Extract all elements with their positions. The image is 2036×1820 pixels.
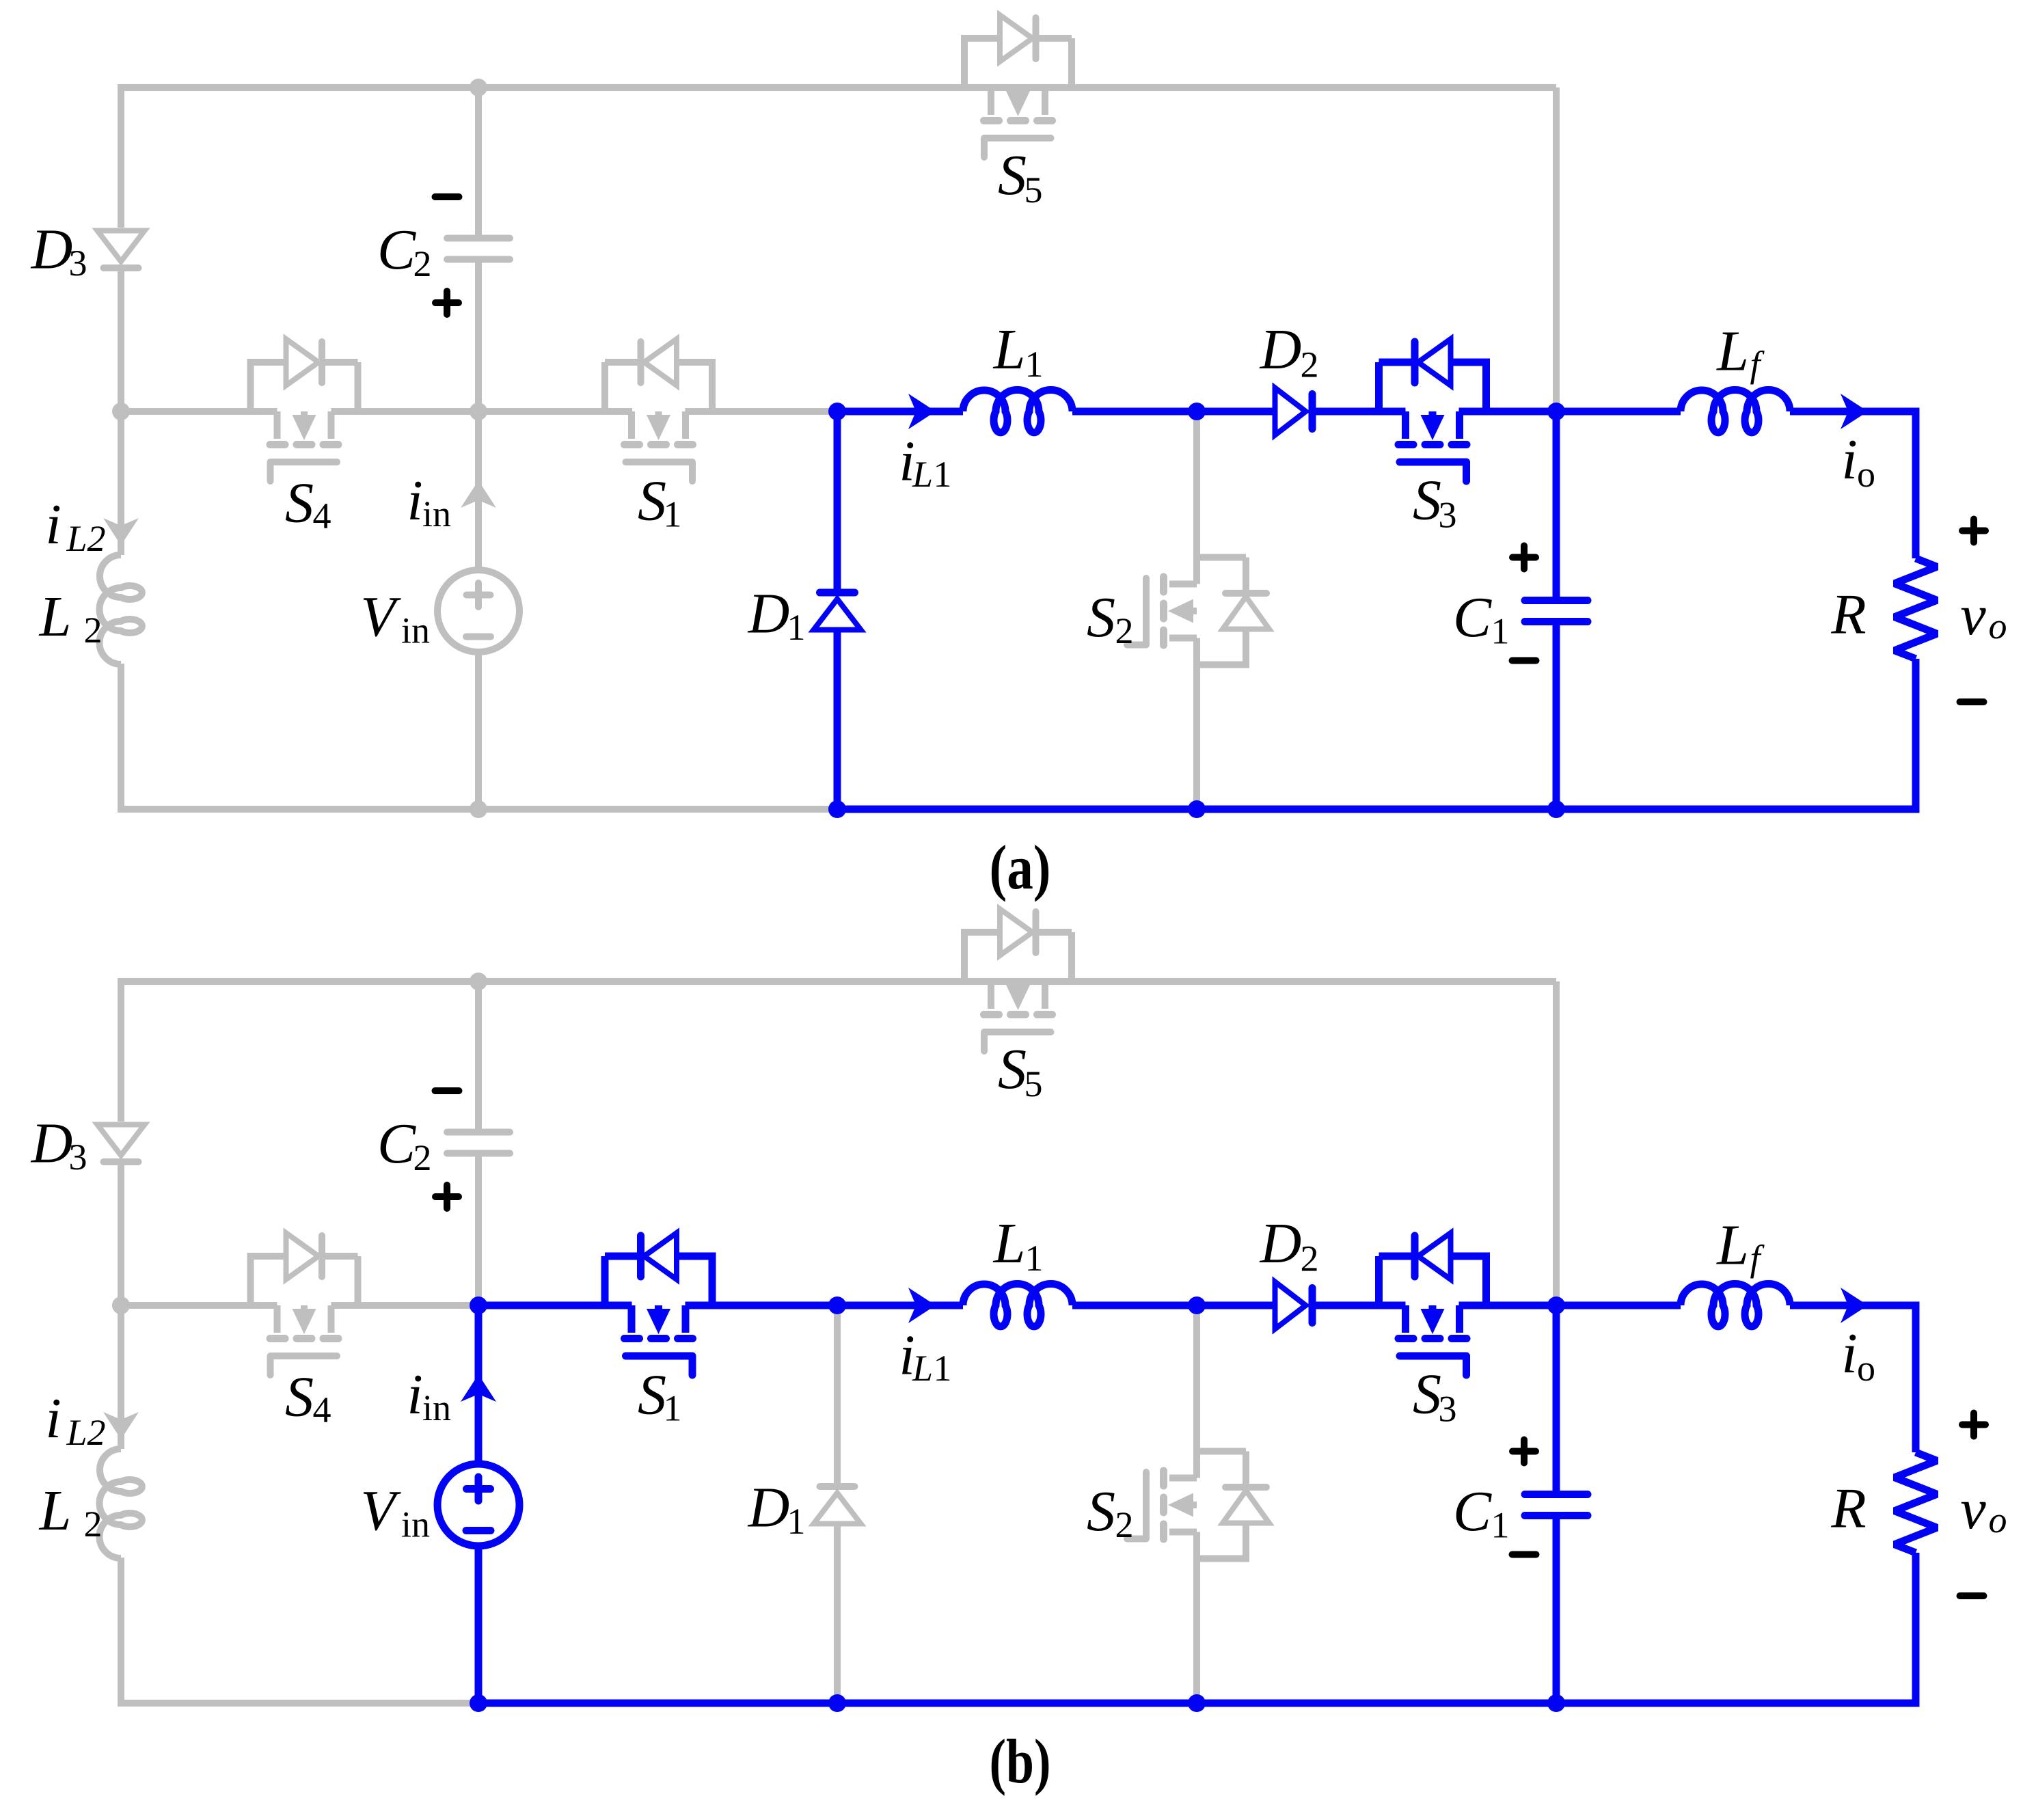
- svg-text:o: o: [1989, 606, 2007, 647]
- svg-text:D: D: [1260, 1212, 1302, 1275]
- svg-text:S: S: [998, 144, 1027, 207]
- svg-text:L: L: [39, 585, 72, 649]
- node D1 bottom: [828, 1694, 846, 1712]
- transistor S4: [251, 1233, 358, 1375]
- svg-text:S: S: [998, 1037, 1027, 1101]
- svg-text:L: L: [1716, 320, 1749, 383]
- arrow i_L1: [908, 1288, 936, 1323]
- wire mid rail gray (S1 to D1 node): [686, 408, 838, 415]
- node C1 bottom: [1547, 1694, 1565, 1712]
- svg-text:C: C: [1453, 1480, 1492, 1543]
- svg-text:2: 2: [1115, 1504, 1134, 1545]
- transistor S3: [1379, 339, 1487, 481]
- resistor R: [1895, 1452, 1937, 1553]
- svg-text:4: 4: [313, 495, 331, 537]
- svg-text:S: S: [1087, 1480, 1115, 1543]
- svg-text:3: 3: [69, 243, 87, 284]
- capacitor C1: [1525, 1495, 1588, 1516]
- svg-text:S: S: [638, 1363, 666, 1427]
- label C2 plus: [435, 291, 459, 314]
- svg-text:2: 2: [1301, 344, 1319, 385]
- inductor Lf: [1681, 1284, 1790, 1327]
- wire D2 to S3: [1312, 408, 1406, 416]
- svg-text:in: in: [422, 493, 451, 534]
- svg-text:L: L: [912, 454, 933, 495]
- arrow i_L1: [908, 394, 936, 429]
- voltage source Vin: [437, 1464, 519, 1546]
- wire top rail + left rail upper: [121, 87, 1556, 228]
- svg-text:S: S: [1087, 586, 1115, 649]
- node D1 top: [828, 403, 846, 420]
- node top C2 junction: [470, 973, 487, 990]
- arrow i_L2: [103, 518, 139, 545]
- svg-text:3: 3: [69, 1137, 87, 1178]
- label out minus: [1960, 1592, 1984, 1599]
- svg-text:2: 2: [84, 610, 103, 651]
- svg-text:v: v: [1960, 584, 1986, 647]
- arrow i_L2: [103, 1412, 139, 1439]
- node C1 top: [1547, 1296, 1565, 1314]
- svg-text:1: 1: [934, 1348, 952, 1389]
- wire C2 branch: [475, 981, 482, 1305]
- wire mid rail gray left: [121, 408, 632, 415]
- svg-text:i: i: [45, 493, 61, 556]
- svg-text:1: 1: [1491, 1505, 1510, 1546]
- svg-text:i: i: [407, 1363, 422, 1426]
- label C1 minus: [1512, 657, 1536, 664]
- label C2 minus: [435, 1087, 459, 1094]
- wire D1 branch blue: [834, 411, 841, 809]
- svg-text:D: D: [748, 582, 790, 646]
- wire Vin branch gray: [475, 411, 482, 809]
- svg-text:L: L: [1716, 1214, 1749, 1277]
- svg-text:i: i: [1841, 428, 1857, 491]
- capacitor C2: [447, 239, 510, 260]
- transistor S4: [251, 339, 358, 481]
- svg-text:S: S: [638, 470, 666, 533]
- svg-text:L: L: [39, 1479, 72, 1543]
- transistor S5: [964, 909, 1072, 1051]
- node Vin bottom junction: [470, 800, 487, 818]
- wire left rail (below D3): [118, 271, 124, 555]
- svg-text:S: S: [1413, 1363, 1441, 1426]
- inductor L1: [963, 1284, 1072, 1327]
- label C1 plus: [1512, 546, 1536, 569]
- svg-text:3: 3: [1439, 495, 1457, 536]
- svg-text:V: V: [360, 585, 401, 649]
- transistor S3: [1379, 1233, 1487, 1375]
- svg-text:o: o: [1857, 454, 1875, 495]
- arrow i_in: [461, 1374, 496, 1402]
- svg-text:C: C: [377, 1112, 416, 1176]
- label C1 plus: [1512, 1440, 1536, 1463]
- svg-text:L: L: [993, 1212, 1026, 1275]
- svg-text:L2: L2: [66, 1412, 105, 1453]
- node Vin bottom junction: [470, 1694, 487, 1712]
- voltage source Vin: [437, 570, 519, 652]
- svg-text:S: S: [1413, 469, 1441, 532]
- diode D1: [814, 593, 861, 630]
- svg-text:R: R: [1830, 1477, 1866, 1540]
- svg-text:1: 1: [787, 607, 806, 648]
- svg-text:i: i: [45, 1387, 61, 1450]
- label C2 minus: [435, 193, 459, 200]
- wire mid rail blue (node to L1): [837, 408, 963, 416]
- node D1 bottom: [828, 800, 846, 818]
- wire mid rail blue (S1 to L1): [686, 1302, 964, 1309]
- svg-text:(b): (b): [990, 1726, 1051, 1796]
- svg-text:v: v: [1960, 1478, 1986, 1541]
- svg-text:L: L: [912, 1348, 933, 1389]
- inductor L2: [100, 1449, 142, 1558]
- svg-text:f: f: [1750, 344, 1765, 385]
- inductor L1: [963, 390, 1072, 433]
- svg-text:S: S: [285, 1366, 314, 1429]
- svg-text:1: 1: [1025, 344, 1044, 385]
- svg-text:i: i: [407, 469, 422, 532]
- label out plus: [1962, 519, 1985, 543]
- node top C2 junction: [470, 79, 487, 96]
- wire S3 to Lf: [1459, 408, 1681, 416]
- node C2 mid junction: [470, 1296, 487, 1314]
- wire C1 branch: [1553, 411, 1560, 809]
- svg-text:(a): (a): [990, 832, 1051, 902]
- svg-text:o: o: [1989, 1499, 2007, 1540]
- node C2 mid junction: [470, 403, 487, 420]
- svg-text:L: L: [993, 318, 1026, 381]
- wire top rail + left rail upper: [121, 981, 1556, 1122]
- svg-text:2: 2: [1301, 1238, 1319, 1279]
- resistor R: [1895, 558, 1937, 659]
- node S2 bottom: [1188, 800, 1206, 818]
- capacitor C1: [1525, 601, 1588, 622]
- svg-text:C: C: [1453, 586, 1492, 649]
- node C1 bottom: [1547, 800, 1565, 818]
- node S2 bottom: [1188, 1694, 1206, 1712]
- node left mid junction: [112, 1296, 130, 1314]
- diode D3: [98, 1125, 145, 1163]
- svg-text:1: 1: [1491, 611, 1510, 652]
- node D1 top: [828, 1296, 846, 1314]
- label C1 minus: [1512, 1551, 1536, 1558]
- inductor L2: [100, 555, 142, 664]
- wire D1 branch gray: [834, 1305, 841, 1703]
- transistor S5: [964, 15, 1072, 157]
- wire mid rail blue (Vin node to S1): [475, 1302, 632, 1309]
- transistor S2: [1127, 558, 1269, 665]
- svg-text:S: S: [285, 472, 314, 535]
- node S2 top: [1188, 1296, 1206, 1314]
- svg-text:D: D: [1260, 318, 1302, 381]
- wire left rail (below D3): [118, 1165, 124, 1449]
- svg-text:D: D: [31, 1112, 73, 1176]
- wire S3 to Lf: [1459, 1302, 1681, 1309]
- arrow i_in: [461, 480, 496, 508]
- wire L1 to D2: [1072, 1302, 1275, 1309]
- wire top-loop right vertical: [1553, 981, 1560, 1305]
- svg-text:o: o: [1857, 1348, 1875, 1389]
- wire L1 to D2: [1072, 408, 1275, 416]
- svg-text:f: f: [1750, 1238, 1765, 1279]
- diode D2: [1275, 388, 1313, 435]
- arrow i_o: [1841, 394, 1868, 429]
- transistor S2: [1127, 1452, 1269, 1559]
- label out minus: [1960, 698, 1984, 705]
- wire mid rail to R top: [1790, 411, 1916, 558]
- svg-text:in: in: [422, 1387, 451, 1428]
- svg-text:D: D: [31, 218, 73, 282]
- wire top-loop right vertical: [1553, 87, 1560, 411]
- svg-text:in: in: [401, 1504, 430, 1545]
- capacitor C2: [447, 1132, 510, 1154]
- svg-text:2: 2: [413, 243, 432, 284]
- svg-text:1: 1: [664, 1388, 682, 1429]
- inductor Lf: [1681, 390, 1790, 433]
- wire mid rail gray left: [121, 1302, 478, 1309]
- svg-text:D: D: [748, 1476, 790, 1540]
- label C2 plus: [435, 1185, 459, 1208]
- wire C1 branch: [1553, 1305, 1560, 1703]
- svg-text:1: 1: [664, 494, 682, 535]
- svg-text:V: V: [360, 1479, 401, 1543]
- svg-text:2: 2: [84, 1504, 103, 1545]
- wire Vin branch blue: [475, 1305, 483, 1703]
- svg-text:i: i: [1841, 1322, 1857, 1385]
- wire R bottom + bottom rail blue: [837, 659, 1916, 809]
- wire C2 branch: [475, 87, 482, 411]
- arrow i_o: [1841, 1288, 1868, 1323]
- diode D3: [98, 231, 145, 269]
- wire left rail lower + bottom rail gray part: [121, 664, 837, 809]
- wire S2 branch: [1193, 1305, 1200, 1703]
- node C1 top: [1547, 403, 1565, 420]
- svg-text:1: 1: [1025, 1238, 1044, 1279]
- svg-text:5: 5: [1024, 1063, 1043, 1104]
- node S2 top: [1188, 403, 1206, 420]
- svg-text:3: 3: [1439, 1389, 1457, 1430]
- wire S2 branch: [1193, 411, 1200, 809]
- svg-text:5: 5: [1024, 169, 1043, 210]
- svg-text:in: in: [401, 610, 430, 651]
- svg-text:2: 2: [413, 1137, 432, 1178]
- label out plus: [1962, 1413, 1985, 1437]
- svg-text:R: R: [1830, 583, 1866, 647]
- wire D2 to S3: [1312, 1302, 1406, 1309]
- wire left rail lower + bottom rail gray part: [121, 1558, 475, 1703]
- diode D2: [1275, 1282, 1313, 1329]
- transistor S1: [605, 339, 712, 481]
- svg-text:1: 1: [787, 1501, 806, 1542]
- svg-text:2: 2: [1115, 610, 1134, 651]
- wire mid rail to R top: [1790, 1305, 1916, 1452]
- transistor S1: [605, 1233, 712, 1375]
- diode D1: [814, 1486, 861, 1524]
- svg-text:C: C: [377, 218, 416, 282]
- node left mid junction: [112, 403, 130, 420]
- svg-text:1: 1: [934, 454, 952, 495]
- svg-text:4: 4: [313, 1389, 331, 1430]
- wire R bottom + bottom rail blue: [475, 1553, 1916, 1703]
- svg-text:L2: L2: [66, 518, 105, 559]
